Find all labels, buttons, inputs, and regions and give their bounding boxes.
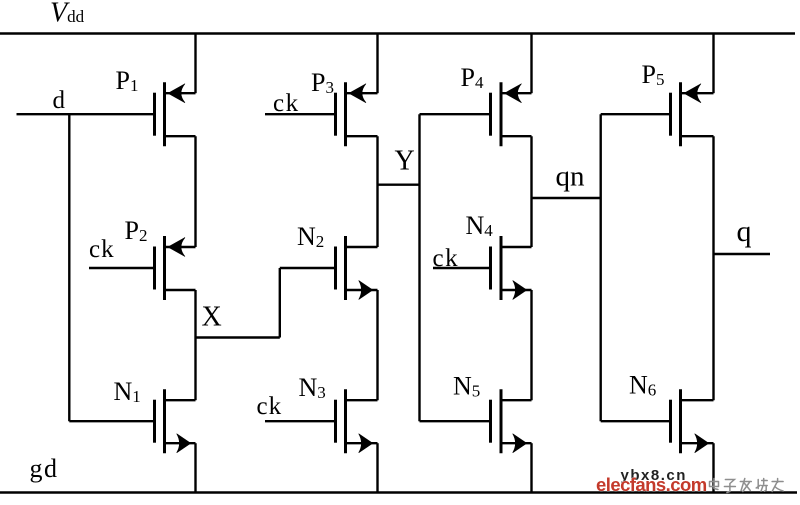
transistor P3 (PMOS): gate bar, channel bar, source stub with arrow, drain stub <box>336 82 378 146</box>
ground rail gd (bottom) <box>0 491 797 493</box>
wire: P3 drain down to N2 drain (node Y tap) <box>376 136 378 247</box>
wire: ck input to P3 gate <box>265 113 336 115</box>
transistor P4 (PMOS): gate bar, channel bar, source stub with arrow, drain stub <box>491 82 532 146</box>
wire: P4 drain down to N4 drain (node qn tap) <box>530 136 532 247</box>
wire: P2 drain down to node X <box>194 290 196 338</box>
svg-text:d: d <box>53 87 66 114</box>
wire: N6 gate horizontal <box>601 420 671 422</box>
node q: output wire <box>714 253 771 255</box>
wire: N3 source down to ground rail <box>376 443 378 492</box>
transistor N3 (NMOS): gate bar, channel bar, drain stub, source stub with arrow <box>336 389 378 453</box>
wire: N4 source to N5 drain <box>530 290 532 400</box>
node X: horizontal wire <box>196 336 280 338</box>
power rail Vdd (top) <box>0 32 795 34</box>
svg-text:qn: qn <box>556 161 586 193</box>
wire: N5 source down to ground rail <box>530 443 532 492</box>
svg-text:gd: gd <box>30 454 59 483</box>
wire: N5 gate horizontal <box>420 420 491 422</box>
wire: N1 gate horizontal <box>69 420 154 422</box>
wire: Vdd rail down to P1 source <box>194 34 196 94</box>
svg-text:X: X <box>202 302 222 333</box>
wire: P1 drain to P2 source <box>194 136 196 247</box>
transistor N5 (NMOS): gate bar, channel bar, drain stub, source stub with arrow <box>491 389 532 453</box>
transistor N1 (NMOS): gate bar, channel bar, drain stub, source stub with arrow <box>155 389 196 453</box>
wire: ck input to N3 gate <box>265 420 336 422</box>
transistor N2 (NMOS): gate bar, channel bar, drain stub, source stub with arrow <box>336 236 378 300</box>
wire: N2 source to N3 drain <box>376 290 378 400</box>
svg-text:elecfans.com: elecfans.com <box>596 474 707 495</box>
wire: input d to P1 gate <box>17 113 155 115</box>
transistor N6 (NMOS): gate bar, channel bar, drain stub, source stub with arrow <box>671 389 714 453</box>
svg-text:ck: ck <box>89 236 115 263</box>
transistor P1 (PMOS): gate bar, channel bar, source stub with arrow, drain stub <box>155 82 196 146</box>
wire: node Y vertical (P4 gate to N5 gate) <box>418 114 420 421</box>
wire: node X down to N1 drain <box>194 338 196 401</box>
svg-text:Y: Y <box>395 146 415 177</box>
wire: d node vertical down to N1 gate <box>68 114 70 421</box>
transistor P5 (PMOS): gate bar, channel bar, source stub with arrow, drain stub <box>671 82 714 146</box>
wire: N1 source down to ground rail <box>194 443 196 492</box>
wire: P4 gate horizontal <box>420 113 491 115</box>
wire: Vdd rail down to P3 source <box>376 34 378 94</box>
wire: node X up to N2 gate <box>279 268 281 338</box>
node qn: horizontal wire <box>532 197 601 199</box>
wire: Vdd rail down to P5 source <box>712 34 714 94</box>
transistor N4 (NMOS): gate bar, channel bar, drain stub, source stub with arrow <box>491 236 532 300</box>
watermark chinese characters (gray, drawn strokes) <box>710 479 784 493</box>
node Y: horizontal wire <box>378 183 420 185</box>
svg-text:ck: ck <box>433 245 460 272</box>
wire: ck input to N4 gate <box>433 267 491 269</box>
svg-text:ck: ck <box>273 90 300 117</box>
svg-text:q: q <box>737 215 752 248</box>
wire: N6 source down to ground rail <box>712 443 714 492</box>
wire: P5 gate horizontal <box>601 113 671 115</box>
wire: P5 drain down to N6 drain (node q tap) <box>712 136 714 400</box>
wire: node qn vertical (P5 gate to N6 gate) <box>600 114 602 421</box>
wire: N2 gate horizontal <box>280 267 336 269</box>
wire: Vdd rail down to P4 source <box>530 34 532 94</box>
svg-text:ck: ck <box>257 393 283 420</box>
transistor P2 (PMOS): gate bar, channel bar, source stub with arrow, drain stub <box>155 236 196 300</box>
wire: ck input to P2 gate <box>89 267 155 269</box>
